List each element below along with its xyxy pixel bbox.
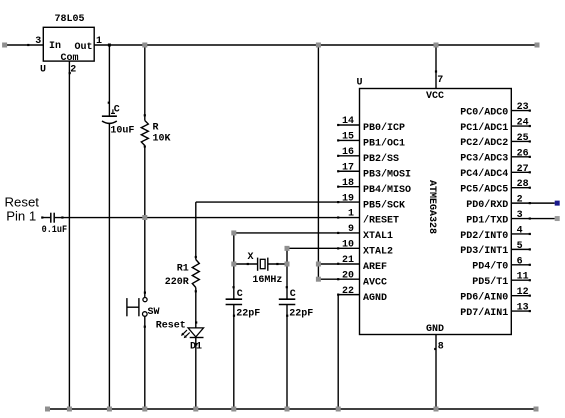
net stub square right end of +5V rail (535, 43, 540, 48)
svg-text:4: 4 (517, 225, 523, 236)
svg-text:25: 25 (517, 133, 529, 144)
wire LED D1 to ground rail (195, 338, 197, 410)
svg-text:10: 10 (342, 240, 354, 251)
svg-text:14: 14 (342, 116, 354, 127)
svg-text:XTAL2: XTAL2 (363, 247, 393, 258)
svg-text:23: 23 (517, 102, 529, 113)
resistor R 10K terminal dot bottom (144, 145, 146, 147)
capacitor C 22pF right terminal dot top (286, 286, 288, 288)
wire IC pin 8 GND to ground rail (435, 335, 437, 410)
switch SW terminal dot bottom (144, 326, 146, 328)
capacitor 0.1uF terminal dot right (61, 216, 63, 218)
net stub square right end of ground rail (534, 407, 539, 412)
IC U right pin 2 PD0/RXD (511, 202, 554, 204)
junction switch column at ground rail (142, 407, 147, 412)
wire +5V rail down to capacitor C 10uF (108, 45, 110, 116)
svg-text:3: 3 (35, 36, 41, 47)
svg-text:6: 6 (517, 256, 523, 267)
svg-text:7: 7 (437, 75, 443, 86)
svg-text:1: 1 (348, 209, 354, 220)
svg-text:VCC: VCC (426, 91, 444, 102)
resistor R1 220R zigzag body (192, 260, 199, 288)
crystal X plates (257, 258, 259, 271)
port square PD1/TXD serial (gray) (555, 216, 560, 221)
svg-text:/RESET: /RESET (363, 215, 399, 227)
wire IC pin 9 XTAL1 to crystal (234, 232, 360, 234)
svg-text:PD2/INT0: PD2/INT0 (460, 230, 508, 242)
LED D1 terminal dot bottom (195, 343, 197, 345)
IC U right pin 4 PD2/INT0 (511, 233, 530, 235)
svg-text:20: 20 (342, 270, 354, 281)
svg-text:GND: GND (426, 324, 444, 335)
IC U left pin 18 PB4/MISO (338, 186, 360, 188)
svg-text:10K: 10K (153, 133, 171, 144)
net stub square left end of ground rail (45, 407, 50, 412)
svg-text:22pF: 22pF (236, 308, 260, 319)
junction crystal right / C 22pF (285, 262, 290, 267)
svg-text:Pin 1: Pin 1 (6, 208, 36, 223)
capacitor 0.1uF plates (50, 213, 52, 223)
IC U right pin 25 PC2/ADC2 (511, 140, 530, 142)
LED D1 cathode bar (190, 337, 204, 339)
wire switch SW to ground rail (144, 316, 146, 409)
svg-text:PB2/SS: PB2/SS (363, 153, 399, 165)
wire +5V rail down to AREF and AVCC (317, 45, 319, 279)
svg-text:PB5/SCK: PB5/SCK (363, 199, 405, 211)
IC U right pin 6 PD4/T0 (511, 264, 530, 266)
svg-text:PD0/RXD: PD0/RXD (466, 199, 508, 211)
ground rail wire (48, 408, 537, 410)
svg-text:PB1/OC1: PB1/OC1 (363, 138, 405, 150)
wire IC pin 10 XTAL2 branch (287, 247, 360, 249)
svg-text:AREF: AREF (363, 262, 387, 273)
junction 22pF right at ground rail (285, 407, 290, 412)
switch SW terminal dot top (144, 292, 146, 294)
IC U right pin 12 PD6/AIN0 (511, 295, 530, 297)
junction XTAL1 branch (231, 230, 236, 235)
capacitor C 22pF left terminal dot bottom (233, 315, 235, 317)
svg-text:17: 17 (342, 162, 354, 173)
junction RESET net at 10K resistor (142, 215, 147, 220)
junction VCC pin 7 at +5V rail (434, 43, 439, 48)
svg-text:XTAL1: XTAL1 (363, 231, 393, 242)
svg-text:PB3/MOSI: PB3/MOSI (363, 168, 411, 180)
wire +5V rail from regulator Out (94, 44, 537, 46)
svg-text:PC1/ADC1: PC1/ADC1 (460, 122, 508, 134)
capacitor C 10uF polarized plates (102, 115, 117, 117)
svg-text:AVCC: AVCC (363, 277, 387, 288)
svg-text:PC2/ADC2: PC2/ADC2 (460, 137, 508, 149)
regulator U1 pin 3 terminal dot (27, 44, 29, 46)
svg-text:28: 28 (517, 179, 529, 190)
IC U right pin 28 PC5/ADC5 (511, 187, 530, 189)
wire AREF to IC pin 21 (318, 263, 359, 265)
LED D1 triangle (188, 328, 203, 337)
svg-text:13: 13 (517, 303, 529, 314)
svg-text:U: U (40, 65, 46, 76)
capacitor C 22pF right terminal dot bottom (286, 315, 288, 317)
svg-text:0.1uF: 0.1uF (42, 225, 68, 236)
svg-text:78L05: 78L05 (55, 14, 85, 25)
svg-text:22pF: 22pF (289, 308, 313, 319)
svg-text:X: X (248, 252, 254, 263)
svg-text:PB0/ICP: PB0/ICP (363, 122, 405, 134)
IC U left pin 14 PB0/ICP (338, 124, 360, 126)
IC U left pin 19 PB5/SCK (337, 201, 339, 203)
wire AVCC to IC pin 20 (318, 278, 359, 280)
svg-text:PD7/AIN1: PD7/AIN1 (460, 307, 508, 319)
wire resistor R 10K to RESET net (144, 146, 146, 218)
capacitor C 22pF right plates (279, 298, 296, 300)
junction LED column at ground rail (193, 407, 198, 412)
wire +5V rail to resistor R 10K (144, 45, 146, 121)
switch SW plunger bars (126, 298, 128, 316)
IC U right pin 23 PC0/ADC0 (511, 110, 530, 112)
capacitor C 22pF left terminal dot top (233, 286, 235, 288)
svg-text:PC4/ADC4: PC4/ADC4 (460, 168, 508, 180)
svg-text:PC0/ADC0: PC0/ADC0 (460, 106, 508, 118)
junction AVCC branch (316, 277, 321, 282)
IC U right pin 13 PD7/AIN1 (511, 310, 530, 312)
junction 10uF at ground rail (107, 407, 112, 412)
svg-text:U: U (357, 78, 363, 89)
svg-text:PC3/ADC3: PC3/ADC3 (460, 153, 508, 165)
junction 22pF left at ground rail (231, 407, 236, 412)
svg-text:3: 3 (517, 210, 523, 221)
switch SW top contact circle (143, 298, 147, 302)
crystal X terminal dot left (247, 263, 249, 265)
svg-text:16: 16 (342, 147, 354, 158)
svg-text:2: 2 (517, 195, 523, 206)
switch SW bottom contact circle (143, 312, 148, 317)
svg-text:18: 18 (342, 178, 354, 189)
LED D1 emission arrows (183, 330, 187, 334)
wire regulator Com to ground rail (68, 61, 70, 409)
IC U left pin 10 XTAL2 (337, 247, 339, 249)
svg-text:19: 19 (342, 193, 354, 204)
wire +9V input to regulator (5, 44, 43, 46)
wire crystal left to capacitor C 22pF left (233, 264, 235, 299)
junction AGND at ground rail (336, 407, 341, 412)
junction 10K pull-up at +5V rail (142, 43, 147, 48)
svg-text:9: 9 (348, 224, 354, 235)
wire crystal right to capacitor C 22pF right (286, 264, 288, 299)
svg-text:PC5/ADC5: PC5/ADC5 (460, 184, 508, 196)
resistor R1 terminal dot top (195, 256, 197, 258)
resistor R 10K terminal dot top (144, 114, 146, 116)
svg-text:AGND: AGND (363, 293, 387, 304)
svg-text:R: R (153, 122, 159, 133)
wire capacitor C 10uF to ground rail (108, 123, 110, 409)
svg-text:24: 24 (517, 118, 529, 129)
crystal X terminal dot right (276, 263, 278, 265)
wire external reset input to capacitor 0.1uF (42, 217, 51, 219)
svg-text:SW: SW (148, 307, 160, 318)
junction AREF branch (316, 262, 321, 267)
net stub square +V input (2, 43, 7, 48)
svg-text:21: 21 (342, 255, 354, 266)
resistor R 10K zigzag body (141, 121, 148, 146)
port square PD0/RXD serial out (blue) (555, 201, 560, 206)
IC U right pin 27 PC4/ADC4 (511, 171, 530, 173)
wire resistor R1 to LED D1 (195, 288, 197, 328)
wire RESET net capacitor to IC /RESET pin 1 (55, 217, 360, 219)
IC U left pin 22 AGND (337, 294, 339, 296)
wire crystal left lead (234, 263, 258, 265)
wire XTAL2 down to crystal row (286, 248, 288, 264)
svg-text:PD4/T0: PD4/T0 (472, 261, 508, 273)
crystal X body rectangle (260, 259, 265, 268)
svg-text:PD5/T1: PD5/T1 (472, 276, 508, 288)
IC U left pin 9 XTAL1 (337, 232, 339, 234)
IC U right pin 3 PD1/TXD (511, 218, 554, 220)
IC U left pin 15 PB1/OC1 (338, 139, 360, 141)
junction XTAL2 branch (285, 246, 290, 251)
IC U left pin 1 /RESET (337, 216, 339, 218)
svg-text:PD3/INT1: PD3/INT1 (460, 245, 508, 257)
svg-text:11: 11 (517, 272, 529, 283)
svg-text:8: 8 (438, 342, 444, 353)
svg-text:26: 26 (517, 148, 529, 159)
svg-text:2: 2 (70, 65, 76, 76)
svg-text:15: 15 (342, 132, 354, 143)
junction crystal left / C 22pF (231, 262, 236, 267)
wire capacitor C 22pF left to ground rail (233, 305, 235, 410)
IC U right pin 26 PC3/ADC3 (511, 156, 530, 158)
wire crystal right lead (268, 263, 287, 265)
svg-text:27: 27 (517, 164, 529, 175)
svg-text:220R: 220R (165, 277, 189, 288)
svg-text:5: 5 (517, 241, 523, 252)
resistor R1 terminal dot bottom (195, 290, 197, 292)
svg-text:22: 22 (342, 286, 354, 297)
svg-text:PD1/TXD: PD1/TXD (466, 214, 508, 226)
svg-text:PD6/AIN0: PD6/AIN0 (460, 291, 508, 303)
IC U left pin 16 PB2/SS (338, 155, 360, 157)
wire switch SW from RESET net down (144, 218, 146, 298)
IC U left pin 17 PB3/MOSI (338, 170, 360, 172)
svg-text:Reset: Reset (156, 321, 186, 332)
svg-text:ATMEGA328: ATMEGA328 (426, 180, 437, 234)
wire XTAL1 down to crystal row (233, 233, 235, 264)
IC U left pin 21 AREF (337, 263, 339, 265)
IC U right pin 11 PD5/T1 (511, 279, 530, 281)
wire capacitor C 22pF right to ground rail (286, 305, 288, 410)
capacitor C 22pF left plates (226, 298, 243, 300)
capacitor 0.1uF terminal dot left (41, 216, 43, 218)
svg-text:10uF: 10uF (110, 126, 134, 137)
wire +5V rail to IC pin 7 VCC (435, 45, 437, 89)
svg-text:12: 12 (517, 287, 529, 298)
regulator U1 78L05 body (43, 27, 94, 61)
svg-text:In: In (49, 41, 61, 52)
wire IC pin 22 AGND down to ground rail (338, 294, 359, 296)
svg-text:Reset: Reset (5, 195, 40, 210)
svg-text:R1: R1 (177, 264, 189, 275)
IC U right pin 5 PD3/INT1 (511, 248, 530, 250)
svg-text:Out: Out (75, 42, 93, 53)
svg-text:PB4/MISO: PB4/MISO (363, 184, 411, 196)
capacitor C 10uF polarity mark (111, 112, 115, 114)
junction GND pin at ground rail (434, 407, 439, 412)
junction dot 10uF tee on +5V rail (108, 44, 111, 47)
wire IC pin 19 PB5/SCK to LED branch (196, 201, 360, 203)
wire LED branch down to resistor R1 (195, 202, 197, 259)
IC U ATMEGA328 body (360, 89, 512, 335)
regulator U1 pin 2 terminal dot (69, 72, 71, 74)
capacitor C 10uF terminal dot top (108, 102, 110, 104)
junction AREF/AVCC feed at +5V rail (316, 43, 321, 48)
IC U right pin 24 PC1/ADC1 (511, 125, 530, 127)
IC U left pin 20 AVCC (337, 278, 339, 280)
svg-text:16MHz: 16MHz (252, 275, 282, 286)
junction Com at ground rail (67, 407, 72, 412)
LED D1 terminal dot top (195, 321, 197, 323)
